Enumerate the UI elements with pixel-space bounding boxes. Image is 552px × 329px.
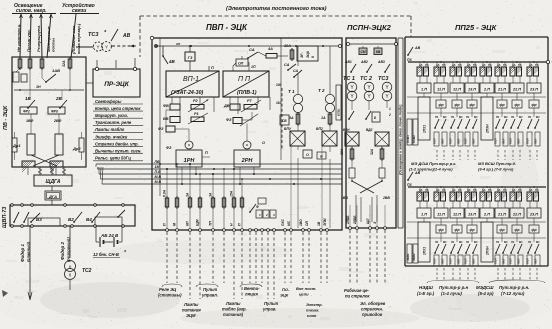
svg-text:2ЛВБ: 2ЛВБ	[353, 215, 357, 225]
svg-text:ПХЛ: ПХЛ	[464, 258, 468, 264]
svg-text:ЛХЛ: ЛХЛ	[457, 138, 461, 145]
svg-text:АВ2: АВ2	[360, 60, 368, 64]
fuse 32А	[62, 57, 72, 70]
svg-text:Вне пост.: Вне пост.	[296, 286, 316, 291]
svg-text:ПХЛ: ПХЛ	[449, 258, 453, 264]
rail 1Н	[14, 85, 84, 90]
feeder rects left bank2	[406, 244, 418, 263]
label Фидер 1	[20, 243, 25, 262]
fuse+converter column 22.П bank2	[510, 186, 524, 218]
wire zigzag x=64	[62, 167, 66, 175]
svg-text:1А: 1А	[467, 188, 471, 192]
svg-text:21.П: 21.П	[497, 88, 506, 92]
svg-text:ТС2: ТС2	[82, 268, 92, 274]
contact АВ2	[360, 60, 372, 73]
terminal right bus	[546, 60, 552, 63]
label ПО-ЭЦК	[280, 287, 290, 298]
label ЩВП-73	[2, 207, 8, 228]
svg-text:П1: П1	[435, 115, 439, 119]
battery АБ 24 В	[100, 237, 118, 247]
svg-text:ГА: ГА	[503, 63, 507, 67]
svg-text:М1: М1	[519, 115, 523, 119]
svg-text:1А: 1А	[419, 63, 423, 67]
svg-text:ЗР-: ЗР-	[300, 52, 304, 58]
contact В3	[30, 213, 42, 223]
transformer Т1	[288, 46, 303, 113]
svg-text:15А: 15А	[230, 190, 234, 197]
svg-text:ГА: ГА	[442, 188, 446, 192]
contact 4В	[162, 46, 175, 72]
svg-text:ПХМ2: ПХМ2	[412, 135, 416, 143]
transformer ТС2	[364, 82, 374, 101]
distribution column 21.П bank2	[494, 218, 509, 266]
wire feeder связи	[71, 14, 76, 58]
wire ТС3 left	[76, 46, 93, 48]
feeder box column 1 bank2	[418, 218, 430, 262]
bus lines ЛВ 1М ПВ МВ СМВ	[96, 164, 342, 184]
wire panel bottom	[19, 89, 71, 175]
svg-text:1А: 1А	[419, 188, 423, 192]
svg-text:1А: 1А	[497, 188, 501, 192]
svg-text:2.П: 2.П	[483, 88, 490, 92]
transformer ТС2	[65, 261, 92, 291]
svg-text:2ПХН: 2ПХН	[486, 246, 490, 256]
contact СА	[247, 47, 266, 59]
svg-text:12.П: 12.П	[453, 213, 461, 217]
svg-text:11.П: 11.П	[437, 213, 445, 217]
wire dashed 100	[281, 88, 283, 150]
relay 1РН	[166, 141, 202, 167]
braces ПП25 bottom	[427, 280, 545, 283]
fuse+converter column 23.П bank1	[527, 61, 541, 93]
svg-text:Фидер 2: Фидер 2	[60, 241, 65, 260]
svg-text:цепи: цепи	[299, 292, 309, 297]
svg-text:П1: П1	[511, 115, 515, 119]
feeder box column 5 bank1	[481, 93, 493, 140]
svg-text:БПШ: БПШ	[337, 109, 341, 116]
distribution column 11.П bank2	[433, 218, 448, 266]
wires ФЗ to РН	[166, 110, 189, 141]
labels 1ВФ 2ВФ	[26, 119, 61, 123]
panel ПСПН-ЭЦК2	[346, 38, 396, 228]
svg-text:6.0А: 6.0А	[163, 189, 167, 197]
label Освещение силов. нагр.	[12, 3, 56, 14]
fuse+converter column 22.П bank1	[510, 61, 524, 93]
wire ВП-1 feed	[209, 66, 214, 71]
svg-text:ЛВ: ЛВ	[154, 160, 160, 164]
bus ПСПН top	[347, 43, 398, 46]
wire zigzag x=40	[38, 167, 42, 175]
svg-text:(Освещение и элктр. пнев. точн: (Освещение и элктр. пнев. точн. тодо)	[399, 104, 403, 175]
label Реле ЭЦ стативы	[158, 284, 182, 298]
label 12 бнк. СН-В	[93, 250, 127, 258]
svg-text:4А: 4А	[267, 47, 273, 51]
box ФЗ 1	[158, 126, 175, 132]
resistor right	[79, 132, 84, 160]
list row Рельс. цепи 50Гц	[93, 156, 143, 161]
label Питание изм.	[71, 25, 76, 54]
column divider	[398, 38, 403, 228]
box ЗР-ЭЦК	[297, 46, 318, 61]
svg-text:ФЗ: ФЗ	[166, 146, 172, 150]
wire Фидер 2	[69, 226, 71, 258]
list row Светофоры	[93, 99, 143, 104]
boxes 1П 2П 3П	[256, 210, 276, 218]
rectifier ВП1	[284, 126, 305, 146]
wire feeder x=41	[40, 14, 43, 58]
wire Фидер 1	[28, 226, 32, 300]
wire link bank2	[407, 221, 546, 223]
wire ЩДГА-ДГА	[51, 186, 53, 191]
label Устройство связи	[60, 2, 99, 14]
svg-text:ЛКМ2: ЛКМ2	[412, 253, 416, 262]
list row Стрелки двойн. упр.	[93, 141, 143, 146]
svg-text:фр: фр	[454, 103, 459, 107]
svg-text:1: 1	[389, 107, 391, 111]
label ПВ-ЭЦК	[3, 105, 9, 130]
contact 1В	[25, 90, 35, 109]
wires rectifier down	[291, 146, 330, 228]
bank bank2	[407, 171, 546, 187]
rectifier ВП2	[316, 126, 337, 146]
terminals top rail	[11, 204, 125, 207]
svg-text:Пульт: Пульт	[203, 287, 217, 292]
box ФР2	[20, 107, 37, 114]
svg-text:(главный): (главный)	[26, 241, 31, 262]
dashed drops bank1	[437, 150, 537, 160]
svg-text:2.П: 2.П	[483, 213, 490, 217]
svg-text:ПСПН-ЭЦК2: ПСПН-ЭЦК2	[347, 23, 392, 32]
wire ПР-ЭЦК feeds	[86, 60, 116, 83]
svg-text:ТС 1: ТС 1	[343, 76, 355, 82]
svg-text:1А: 1А	[482, 188, 486, 192]
wires to chokes	[31, 114, 59, 134]
svg-text:пи стрелок: пи стрелок	[345, 294, 370, 299]
wire ДГА down	[51, 200, 53, 205]
box ПР-ЭЦК	[93, 67, 140, 97]
boxes aux left	[13, 72, 27, 82]
box КВ	[363, 46, 382, 55]
svg-text:ФР2: ФР2	[23, 110, 30, 114]
fuse+converter column 13.П bank1	[465, 61, 479, 93]
svg-text:2: 2	[265, 213, 268, 217]
svg-text:ГА: ГА	[458, 63, 462, 67]
fuse 1	[18, 57, 22, 70]
svg-text:6П: 6П	[186, 221, 190, 226]
label ПСПН-ЭЦК2	[347, 23, 392, 32]
svg-text:3А: 3А	[186, 192, 190, 197]
svg-text:ТП: ТП	[209, 221, 213, 226]
list row Трансмитн. реле	[93, 120, 143, 125]
labels ТС1 ТС2 ТС3	[343, 76, 388, 82]
terminal labels ПВП	[163, 218, 244, 231]
svg-text:фр: фр	[438, 228, 443, 232]
svg-text:П1: П1	[451, 115, 455, 119]
fuse 3	[40, 57, 44, 70]
choke Др1	[12, 134, 35, 155]
svg-text:1А: 1А	[467, 63, 471, 67]
svg-text:ВП-1: ВП-1	[183, 76, 199, 83]
feeder rects left bank1	[406, 119, 418, 145]
labels 100 110	[276, 83, 282, 105]
loop В3	[28, 218, 60, 226]
svg-text:ПП25 - ЭЦК: ПП25 - ЭЦК	[455, 23, 498, 32]
box Б	[317, 152, 326, 159]
svg-text:ЭЦК: ЭЦК	[306, 50, 310, 58]
svg-text:(УЗАТ-24-30): (УЗАТ-24-30)	[171, 90, 204, 96]
fuse 30А	[340, 147, 354, 161]
svg-text:П1: П1	[466, 240, 470, 244]
svg-text:ПХЛ: ПХЛ	[509, 138, 513, 144]
terminal corner ПВП	[150, 36, 153, 39]
svg-text:П1: П1	[496, 240, 500, 244]
svg-text:(Электропитка постоянного тока: (Электропитка постоянного тока)	[226, 6, 327, 12]
svg-text:Др2: Др2	[72, 146, 81, 151]
svg-text:32А: 32А	[370, 148, 374, 155]
contact В2	[68, 212, 82, 223]
labels bus	[154, 160, 162, 184]
svg-text:ГА: ГА	[535, 63, 539, 67]
transformer Т2	[318, 46, 335, 113]
svg-text:посты: посты	[51, 37, 56, 52]
wire list taps	[96, 164, 103, 184]
svg-text:1Н: 1Н	[36, 85, 41, 89]
transformer ТС1	[347, 82, 357, 101]
svg-text:АБ 24 В: АБ 24 В	[100, 233, 119, 238]
box ДВ	[223, 104, 240, 110]
resistor Р7	[241, 99, 261, 112]
wires РН to bus	[182, 167, 254, 184]
fuse+converter column 21.П bank2	[495, 186, 509, 218]
svg-text:В4: В4	[86, 217, 92, 222]
resistor Р1	[188, 112, 208, 124]
svg-text:1А: 1А	[482, 63, 486, 67]
svg-text:2: 2	[388, 113, 391, 117]
svg-text:П1: П1	[466, 115, 470, 119]
fuse 4А	[266, 47, 288, 58]
svg-text:В2Н: В2Н	[343, 128, 350, 132]
svg-text:Рабочие це-: Рабочие це-	[344, 288, 369, 293]
svg-text:ЛХЛ: ЛХЛ	[472, 258, 476, 265]
svg-text:ЛХЛ: ЛХЛ	[502, 258, 506, 265]
rectifier ВД2	[366, 128, 389, 146]
wire regulator ПП	[240, 114, 258, 141]
panel ЩВП-73	[10, 205, 135, 226]
svg-text:Y: Y	[96, 45, 99, 50]
fuse 32А	[370, 147, 384, 161]
feeder box column 1 bank1	[418, 93, 430, 140]
svg-text:3А: 3А	[289, 116, 294, 120]
box ЩДГА	[34, 175, 72, 186]
svg-text:ЭЦК: ЭЦК	[280, 293, 289, 298]
svg-text:М1: М1	[536, 240, 540, 244]
distribution column 13.П bank1	[464, 93, 479, 146]
svg-text:П1: П1	[496, 115, 500, 119]
svg-text:22.П: 22.П	[512, 88, 521, 92]
svg-text:Рельс. цепи 50Гц: Рельс. цепи 50Гц	[95, 156, 131, 161]
wire ПП feed	[249, 62, 256, 71]
fuse+converter column 23.П bank2	[527, 186, 541, 218]
rectifier ВП-1	[166, 71, 219, 97]
svg-text:М1: М1	[443, 115, 447, 119]
svg-text:(7-12 лучи): (7-12 лучи)	[501, 291, 525, 296]
svg-text:Трансмитн. реле: Трансмитн. реле	[95, 120, 132, 125]
fuse+converter column 12.П bank1	[450, 61, 464, 93]
choke Др2	[55, 134, 81, 155]
svg-text:Эшифр. ячейки: Эшифр. ячейки	[95, 134, 128, 139]
svg-text:2РН: 2РН	[241, 158, 254, 164]
contact Ф	[249, 204, 259, 213]
contacts pair left	[13, 212, 29, 223]
label Рабочие цепи стрелок	[344, 288, 370, 299]
svg-text:13.П: 13.П	[468, 88, 476, 92]
svg-text:Лампы: Лампы	[183, 302, 199, 307]
svg-text:П1: П1	[451, 240, 455, 244]
label Маневровые	[46, 26, 51, 52]
svg-text:1А: 1А	[321, 116, 326, 120]
svg-text:АВ1: АВ1	[344, 60, 352, 64]
svg-text:1РН: 1РН	[184, 158, 196, 164]
fuse 3А Т1	[289, 112, 300, 126]
panel ПВ-ЭЦК	[12, 57, 86, 167]
box ФР0	[48, 107, 65, 114]
fuse+converter column 2.П bank2	[480, 186, 494, 218]
svg-text:ГА: ГА	[473, 188, 477, 192]
svg-text:МЭ ДСШ Пут.тр-р р.к.: МЭ ДСШ Пут.тр-р р.к.	[411, 161, 456, 166]
label Пульт упр.	[26, 29, 31, 52]
contact СА 2	[284, 63, 296, 71]
svg-text:ОЛ: ОЛ	[238, 62, 244, 66]
relay 2РН	[234, 141, 265, 167]
svg-text:ЛХЛ: ЛХЛ	[534, 138, 538, 145]
svg-text:Лампы табло: Лампы табло	[94, 127, 125, 132]
svg-text:ПХЛ: ПХЛ	[433, 138, 437, 144]
svg-text:Т 1: Т 1	[288, 89, 295, 94]
label bank1 right	[478, 161, 516, 172]
wires to bridge	[352, 161, 382, 168]
svg-text:М1: М1	[504, 115, 508, 119]
wire dashed corner right	[410, 16, 412, 37]
svg-text:1А: 1А	[452, 188, 456, 192]
box ФЗ 2	[226, 112, 252, 124]
terminals ПВП right	[281, 218, 329, 231]
wire zigzag x=52	[50, 167, 54, 175]
svg-text:М1: М1	[443, 240, 447, 244]
svg-text:10А: 10А	[284, 44, 291, 48]
svg-text:1.П: 1.П	[421, 88, 427, 92]
wire dashed arrow ТС3	[112, 45, 138, 48]
svg-text:ГА: ГА	[488, 63, 492, 67]
svg-text:АВ: АВ	[414, 171, 421, 175]
svg-text:1ЛВБ: 1ЛВБ	[346, 215, 350, 224]
wire link bank1	[407, 96, 546, 98]
svg-text:ЛХЛ: ЛХЛ	[441, 138, 445, 145]
svg-text:М1: М1	[459, 240, 463, 244]
terminals bottom rail	[11, 225, 125, 228]
svg-text:АВ: АВ	[414, 46, 421, 50]
box Б mid	[372, 107, 391, 122]
contact СА Т1	[293, 69, 302, 78]
svg-text:Пут.тр-р р.н: Пут.тр-р р.н	[439, 285, 469, 290]
svg-text:Р1: Р1	[194, 112, 199, 116]
label Вне пост. цепи	[296, 286, 316, 297]
label резервный	[66, 237, 71, 262]
svg-text:Светофоры: Светофоры	[95, 99, 122, 104]
svg-text:12.П: 12.П	[453, 88, 461, 92]
svg-text:ГА: ГА	[488, 188, 492, 192]
box ДГА	[45, 191, 61, 200]
svg-text:1ВФ: 1ВФ	[26, 119, 33, 123]
svg-text:Электр.: Электр.	[306, 302, 323, 307]
distribution column 22.П bank1	[509, 93, 524, 146]
svg-text:ПХЛ: ПХЛ	[494, 258, 498, 264]
svg-text:Контр. цепи стрелок: Контр. цепи стрелок	[95, 106, 141, 111]
svg-text:фр: фр	[514, 103, 519, 107]
distribution column 22.П bank2	[509, 218, 524, 266]
svg-text:фр: фр	[499, 103, 504, 107]
svg-text:Пульт упр.: Пульт упр.	[26, 29, 31, 52]
svg-text:(ПЛВ-1): (ПЛВ-1)	[237, 90, 257, 96]
wire feeder x=51	[47, 14, 53, 58]
svg-text:ГА: ГА	[518, 63, 522, 67]
svg-text:1А: 1А	[529, 63, 533, 67]
coil 1	[22, 161, 35, 172]
svg-text:ВПУ: ВПУ	[284, 127, 292, 131]
fuse row ПВП	[163, 163, 244, 228]
svg-text:М.В: М.В	[155, 175, 162, 179]
wire inner divider	[280, 38, 282, 160]
svg-text:ПХЛ: ПХЛ	[433, 258, 437, 264]
svg-text:Г3: Г3	[188, 55, 193, 60]
label типа перезар.	[76, 23, 81, 54]
list row Эшифр. ячейки	[93, 134, 143, 139]
fuse+converter column 12.П bank2	[450, 186, 464, 218]
svg-text:М.В: М.В	[155, 180, 162, 184]
distribution column 21.П bank1	[494, 93, 509, 146]
label П	[202, 151, 210, 157]
wires fuses down	[16, 68, 70, 90]
box ВВ	[163, 117, 180, 123]
svg-text:ll: ll	[311, 56, 315, 58]
svg-text:М1: М1	[474, 115, 478, 119]
box СВ	[280, 115, 289, 125]
panel ПП25 bottom	[405, 265, 548, 267]
label ТС3*	[88, 30, 107, 38]
bank bank1	[407, 46, 546, 62]
box ФВ	[163, 104, 180, 110]
fuse+converter column 11.П bank1	[434, 61, 448, 93]
svg-text:МЭДСШ: МЭДСШ	[476, 285, 494, 290]
svg-text:1А: 1А	[452, 63, 456, 67]
svg-text:1ВО: 1ВО	[299, 219, 303, 226]
svg-text:Резервируем.: Резервируем.	[36, 25, 41, 52]
distribution column 13.П bank2	[464, 218, 479, 266]
label посты	[51, 37, 56, 52]
dashed drops ПСПН	[350, 230, 385, 283]
svg-text:1АВ: 1АВ	[52, 68, 60, 73]
svg-text:СА: СА	[284, 63, 290, 67]
fuse 10А	[284, 44, 294, 61]
svg-text:13.П: 13.П	[468, 213, 476, 217]
svg-text:управл.: управл.	[201, 293, 218, 298]
contact АВ top	[111, 29, 118, 41]
crossover ВБ	[341, 178, 390, 222]
svg-text:ТС3: ТС3	[88, 32, 98, 38]
wire feeder x=31	[30, 14, 33, 58]
wires under ВП-1	[172, 97, 214, 116]
svg-text:П1: П1	[435, 240, 439, 244]
list row Маршрут. указ.	[93, 113, 143, 118]
